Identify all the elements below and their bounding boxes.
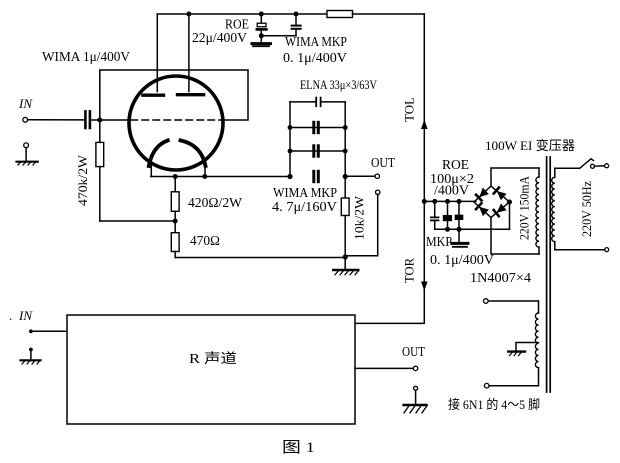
svg-text:R 声道: R 声道 — [189, 351, 237, 366]
wire grid loop (parallel sections) — [100, 70, 248, 120]
ground PSU — [452, 229, 468, 247]
wire top B+ rail left segment — [157, 13, 327, 15]
ground R OUT — [404, 386, 427, 413]
node PSU cap2 top — [445, 199, 450, 204]
ground R input — [21, 348, 41, 364]
terminal IN (R channel) — [29, 329, 33, 333]
node row4 left — [287, 174, 292, 179]
ground under ROE cap — [252, 36, 271, 47]
node junction 420/470 — [173, 219, 178, 224]
label 10k/2W — [352, 195, 367, 240]
bridge rectifier 1N4007x4 — [474, 186, 510, 218]
label 470ohm — [190, 234, 220, 249]
wire 470ohm to ground bus — [175, 257, 345, 259]
label heater connection — [448, 397, 540, 412]
wire anode lead right — [188, 14, 190, 92]
wire top B+ rail right segment — [353, 13, 425, 15]
node junction top rail / ROE cap — [259, 12, 264, 17]
svg-text:OUT: OUT — [402, 344, 426, 359]
capacitor ROE 100u no.2 — [455, 201, 464, 229]
terminal heater bottom — [484, 383, 489, 388]
node PSU cap3 bottom — [457, 227, 462, 232]
transformer T1 mains primary winding — [552, 168, 555, 250]
svg-text:IN: IN — [18, 96, 33, 111]
wire R OUT — [355, 367, 413, 369]
wire mains bottom lead — [555, 249, 605, 251]
label 470k/2W — [75, 154, 90, 206]
node PSU cap3 top — [457, 199, 462, 204]
svg-text:1N4007×4: 1N4007×4 — [470, 270, 531, 285]
ground main (under 10k) — [333, 257, 358, 275]
svg-text:0. 1μ/400V: 0. 1μ/400V — [283, 50, 347, 65]
label WIMA 1u/400V — [42, 49, 130, 64]
capacitor ROE 22u/400V — [257, 14, 267, 36]
wire to OUT terminal — [345, 175, 375, 177]
node ground bus junction — [343, 254, 348, 259]
wire heater top lead — [488, 300, 539, 302]
svg-text:MKP: MKP — [426, 234, 452, 249]
svg-text:100W EI 变压器: 100W EI 变压器 — [485, 138, 575, 153]
node bridge right corner — [507, 200, 512, 205]
node row3 left — [288, 149, 293, 154]
svg-text:420Ω/2W: 420Ω/2W — [188, 196, 243, 211]
wire heater bottom lead — [489, 385, 539, 387]
svg-text:220V 50Hz: 220V 50Hz — [579, 181, 594, 237]
resistor 470k/2W grid leak — [96, 120, 104, 221]
label 0.1u/400V (PSU) — [430, 252, 494, 267]
transformer T1 heater winding 6.3V — [535, 301, 538, 386]
svg-text:220V 150mA: 220V 150mA — [517, 175, 532, 240]
node TOR label — [402, 258, 417, 283]
label /400V — [434, 183, 469, 198]
wire mains top lead — [555, 167, 580, 169]
tube cathode arc right — [181, 140, 206, 166]
label figure caption — [282, 439, 315, 456]
node TOL label — [402, 97, 417, 122]
svg-text:接 6N1 的 4～5 脚: 接 6N1 的 4～5 脚 — [448, 397, 540, 412]
label 420ohm/2W — [188, 196, 243, 211]
terminal IN — [23, 117, 28, 122]
resistor dropper (top rail) — [327, 11, 353, 18]
node junction top rail / MKP cap — [294, 12, 299, 17]
svg-text:WIMA 1μ/400V: WIMA 1μ/400V — [42, 49, 130, 64]
svg-text:.: . — [9, 308, 12, 323]
node PSU cap2 bottom — [445, 227, 450, 232]
node row3 right — [343, 149, 348, 154]
tube anode plate right — [178, 93, 204, 96]
label ELNA 33ux3/63V — [300, 77, 377, 92]
R channel block — [67, 315, 355, 424]
label 22u/400V — [192, 30, 247, 45]
ground heater center tap — [508, 352, 525, 356]
wire PSU negative bus — [435, 228, 510, 230]
svg-text:IN: IN — [18, 308, 33, 323]
label R channel — [189, 351, 237, 366]
svg-text:/400V: /400V — [434, 183, 469, 198]
wire cap bank right rail — [344, 102, 346, 198]
node row4 right — [343, 174, 348, 179]
capacitor MKP 0.1u/400V (PSU) — [431, 201, 439, 229]
tube cathode arc left — [149, 140, 168, 166]
wire bridge bottom AC — [491, 218, 539, 255]
capacitor ROE 100u no.1 — [443, 201, 452, 229]
wire grid leak return — [100, 220, 175, 222]
terminal OUT (L) — [375, 174, 379, 178]
label OUT (R) — [402, 344, 426, 359]
wire cap bank left rail — [289, 102, 291, 177]
wire IN to coupling cap — [28, 119, 84, 121]
resistor 10k/2W — [341, 198, 349, 258]
svg-text:WIMA MKP: WIMA MKP — [285, 34, 347, 49]
label OUT (L) — [371, 155, 396, 170]
node grid junction — [97, 118, 102, 123]
tube anode plate left — [143, 93, 164, 96]
terminal heater top — [484, 299, 489, 304]
svg-text:10k/2W: 10k/2W — [352, 195, 367, 240]
svg-text:WIMA MKP: WIMA MKP — [273, 185, 337, 200]
label WIMA MKP — [285, 34, 347, 49]
svg-text:TOL: TOL — [402, 97, 417, 122]
svg-text:22μ/400V: 22μ/400V — [192, 30, 247, 45]
label 0.1u/400V — [283, 50, 347, 65]
wire cathode bus — [151, 176, 290, 178]
node cathode junction — [173, 174, 178, 179]
label WIMA MKP (bottom) — [273, 185, 337, 200]
svg-text:4. 7μ/160V: 4. 7μ/160V — [272, 199, 337, 214]
capacitor ELNA 33u row2 — [290, 122, 345, 132]
ground input — [17, 143, 38, 165]
capacitor bank row1 (film) — [290, 98, 345, 107]
label IN — [18, 96, 33, 111]
wire anode lead left — [156, 14, 158, 92]
capacitor ELNA 33u row3 — [290, 146, 345, 156]
node PSU cap1 top — [432, 199, 437, 204]
label 1N4007x4 — [470, 270, 531, 285]
node junction top rail / right anode — [186, 12, 191, 17]
svg-text:TOR: TOR — [402, 258, 417, 283]
wire cathode lead right — [204, 163, 206, 177]
resistor 470ohm — [171, 221, 179, 258]
node junction B+ / PSU output — [422, 199, 427, 204]
label 4.7u/160V — [272, 199, 337, 214]
wire bridge top AC — [491, 168, 539, 186]
label 100ux2 — [430, 171, 474, 186]
label MKP — [426, 234, 452, 249]
node cathode right junction — [202, 174, 207, 179]
node arrow to R channel — [421, 281, 428, 291]
wire cathode lead left — [150, 163, 152, 177]
svg-text:470Ω: 470Ω — [190, 234, 220, 249]
wire cap to grid — [91, 119, 129, 121]
transformer T1 HV secondary winding 220V 150mA — [536, 168, 539, 254]
wire bridge right corner to negative bus — [509, 202, 511, 229]
svg-text:OUT: OUT — [371, 155, 396, 170]
switch S1 — [580, 159, 609, 169]
node arrow to L channel — [421, 119, 428, 129]
svg-text:0. 1μ/400V: 0. 1μ/400V — [430, 252, 494, 267]
label ROE (PSU) — [442, 158, 469, 173]
terminal mains bottom — [605, 248, 609, 252]
node junction under ROE cap — [259, 33, 264, 38]
tube V1 6N1 dual triode envelope — [129, 76, 223, 170]
capacitor WIMA 1u/400V coupling — [85, 111, 90, 128]
wire B+ vertical feed line — [355, 14, 424, 323]
wire R input — [31, 330, 67, 332]
terminal OUT return — [376, 190, 380, 194]
label 220V 50Hz — [579, 181, 594, 237]
node row2 right — [343, 125, 348, 130]
node row2 left — [288, 125, 293, 130]
wire cap common to ground — [261, 35, 296, 37]
label 220V 150mA — [517, 175, 532, 240]
wire heater center tap — [516, 343, 539, 352]
label 100W EI transformer — [485, 138, 575, 153]
svg-text:470k/2W: 470k/2W — [75, 154, 90, 206]
svg-text:图 1: 图 1 — [282, 439, 315, 456]
resistor 420ohm/2W cathode — [171, 177, 179, 222]
wire OUT return to ground bus — [347, 195, 378, 256]
label ROE — [225, 17, 249, 32]
svg-text:ELNA 33μ×3/63V: ELNA 33μ×3/63V — [300, 77, 377, 92]
capacitor ELNA 33u row4 — [314, 171, 319, 181]
capacitor WIMA MKP 0.1u/400V (top) — [292, 14, 301, 36]
label IN (R channel) — [9, 308, 33, 323]
tube grid (dashed) — [131, 119, 221, 121]
wire PSU positive bus — [424, 200, 476, 202]
terminal OUT (R) — [413, 366, 417, 370]
transformer T1 core — [547, 157, 551, 392]
